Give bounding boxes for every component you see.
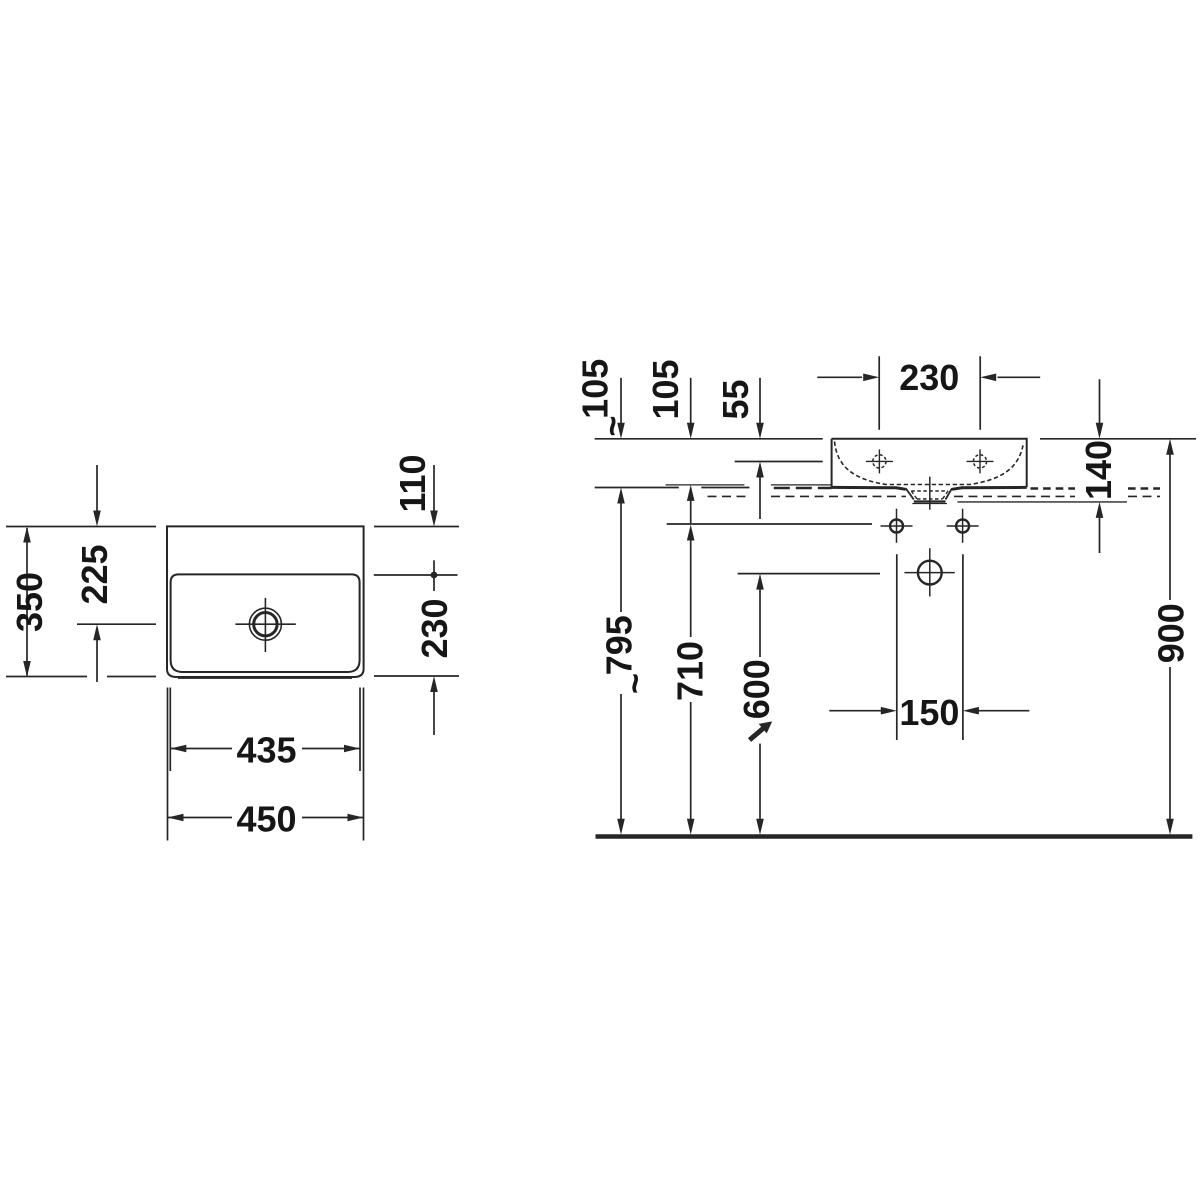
drain crosshair horizontal (235, 623, 295, 625)
faucet hole right dashed circle (973, 455, 986, 468)
dim 350 line (26, 528, 28, 676)
top dim shafts ~105 / 105 / 55 (620, 378, 622, 424)
55 bottom outside arrow (756, 462, 764, 478)
adjustability arrow (750, 726, 767, 740)
dim 225 line (outside arrows) (96, 465, 98, 512)
lower dashed level line (708, 495, 750, 497)
svg-text:105: 105 (575, 359, 616, 419)
svg-text:230: 230 (899, 357, 959, 398)
dim ~795 (617, 488, 625, 504)
siphon outlet circle (918, 561, 942, 585)
svg-text:450: 450 (236, 798, 296, 839)
extension line inner-top level right (374, 574, 458, 576)
svg-text:600: 600 (736, 659, 777, 719)
dim 450 (168, 817, 233, 819)
faucet hole level line left (735, 461, 823, 463)
dim 230R bottom outside arrow (433, 692, 435, 736)
washbasin outer rim bottom accent (178, 677, 352, 679)
basin bottom level bold dashes left (774, 487, 832, 490)
svg-text:350: 350 (9, 572, 50, 632)
svg-text:140: 140 (1078, 440, 1119, 500)
anchor hole left (890, 520, 903, 533)
furniture level thin line (666, 484, 745, 486)
dim origin marker for 110/230 chain (433, 560, 435, 591)
svg-text:225: 225 (74, 544, 115, 604)
dim 900 (1166, 439, 1174, 455)
dim 710 (687, 525, 695, 541)
dim 230 top: extension lines (878, 356, 880, 430)
extension line drain level left (77, 623, 156, 625)
extension line bottom edge left (6, 676, 87, 678)
svg-text:110: 110 (392, 454, 433, 512)
svg-text:230: 230 (414, 598, 455, 658)
svg-text:~: ~ (614, 673, 655, 694)
faucet hole left dashed circle (873, 455, 886, 468)
dim 110 line (outside arrow from above) (433, 465, 435, 512)
dim 600 (756, 574, 764, 590)
basin bottom level solid left (595, 487, 679, 489)
105#2 bottom outside arrow (687, 485, 695, 501)
extension line top edge left (6, 526, 156, 528)
dim 230 top arrows (817, 376, 862, 378)
extension line top edge right (374, 526, 459, 528)
svg-text:150: 150 (899, 692, 959, 733)
svg-text:900: 900 (1150, 603, 1191, 663)
basin bottom level bold dashes right (1031, 487, 1076, 490)
washbasin inner bowl plan (171, 574, 360, 672)
siphon level line (600) (738, 573, 880, 575)
drain collar inner dashed (911, 491, 948, 499)
top edge level line left (595, 438, 823, 440)
svg-text:~: ~ (591, 415, 632, 436)
dim 435 (170, 748, 232, 750)
drain crosshair vertical (264, 598, 266, 652)
dim 150 extension verticals (896, 554, 898, 740)
dim 150 arrows (829, 710, 881, 712)
drain collar outline (906, 488, 952, 499)
basin front body (832, 439, 1027, 488)
basin front bottom edge thick with drain dip (832, 487, 1027, 489)
svg-text:795: 795 (599, 615, 640, 675)
anchor fixing level line (710) (667, 523, 872, 525)
dim 140 (1099, 379, 1101, 423)
svg-text:55: 55 (715, 379, 756, 419)
ground line (596, 834, 1193, 839)
extension verticals below for 435/450 (167, 688, 169, 841)
drain centerline (929, 477, 931, 510)
140 bottom reference line (958, 501, 1127, 503)
top edge level line right (1040, 438, 1196, 440)
svg-text:710: 710 (670, 641, 711, 701)
bowl hidden curve dashed (835, 442, 1024, 485)
svg-text:435: 435 (236, 729, 296, 770)
drain outer circle (249, 608, 281, 640)
drain inner circle (254, 613, 277, 636)
svg-text:105: 105 (645, 359, 686, 419)
anchor hole right (956, 520, 969, 533)
washbasin outer rim plan (167, 526, 364, 677)
extension line bottom edge right (374, 675, 459, 677)
